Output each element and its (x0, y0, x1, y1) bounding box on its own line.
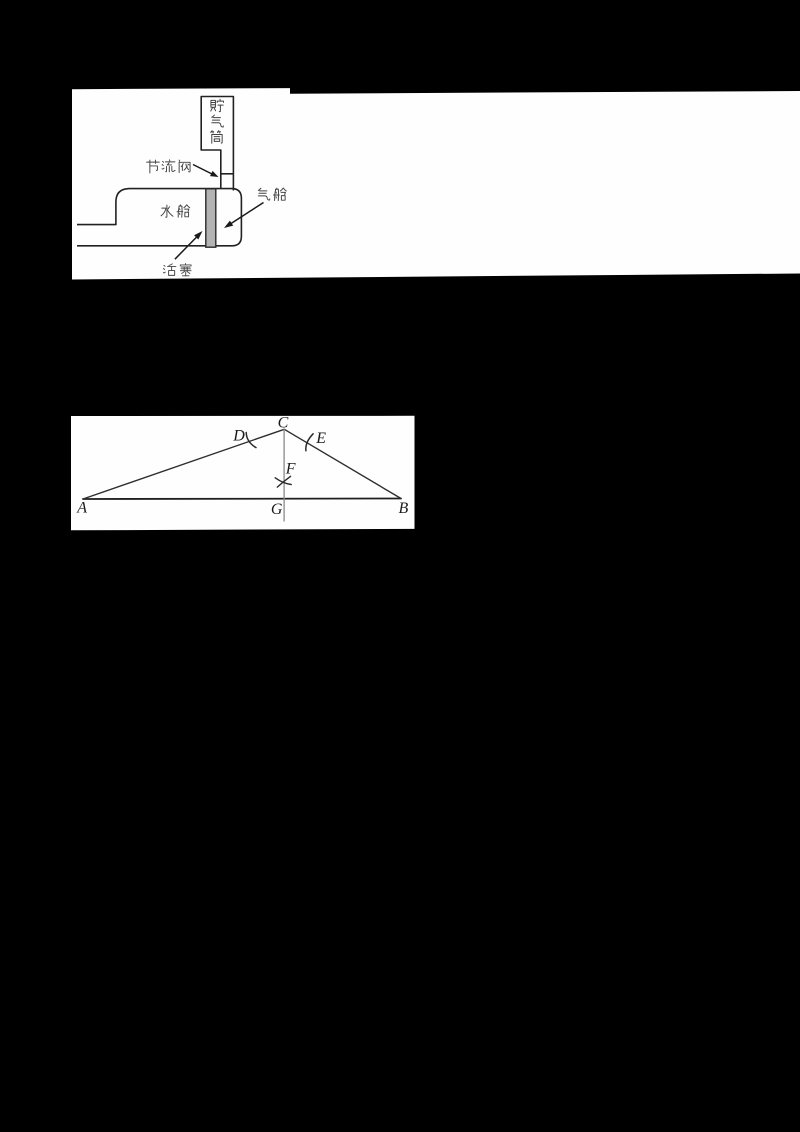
svg-text:A: A (76, 500, 87, 517)
svg-text:D: D (232, 427, 245, 444)
svg-text:E: E (315, 430, 326, 447)
svg-text:B: B (399, 500, 409, 517)
svg-text:G: G (271, 501, 283, 518)
svg-text:C: C (278, 414, 289, 431)
svg-text:F: F (285, 461, 296, 478)
